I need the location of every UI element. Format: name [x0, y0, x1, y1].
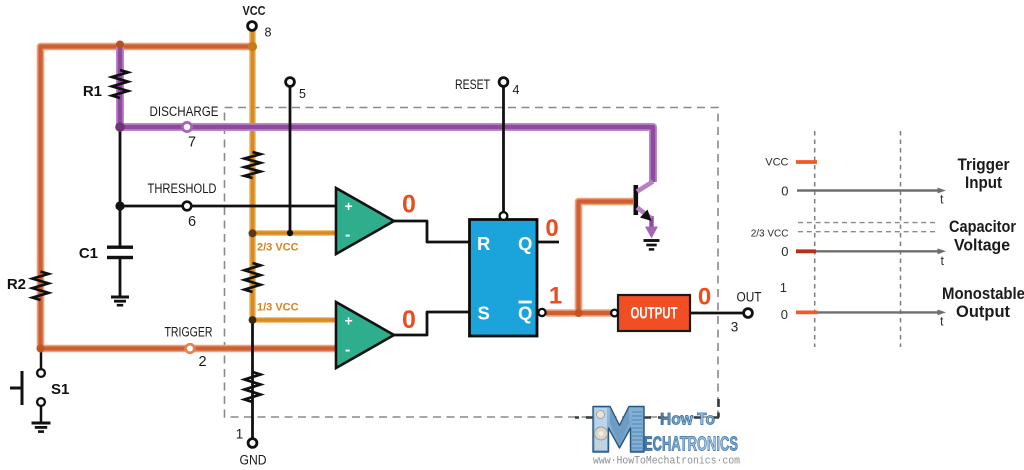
svg-text:8: 8: [265, 26, 272, 40]
svg-text:OUTPUT: OUTPUT: [631, 305, 678, 323]
svg-text:RESET: RESET: [455, 77, 490, 92]
svg-text:+: +: [345, 313, 353, 329]
OUTPUT stage block: [618, 295, 690, 331]
pin 6 terminal on threshold wire: [183, 202, 192, 211]
svg-text:t: t: [940, 193, 944, 207]
svg-text:1: 1: [236, 427, 244, 442]
wire THRESHOLD net (black) node to pin 6 and comparator 1 plus input: [119, 127, 122, 246]
capacitor voltage axis: [797, 248, 946, 268]
capacitor voltage threshold dashed lines: [798, 223, 937, 232]
capacitor voltage level segment (dark red): [796, 249, 816, 253]
logo letter M: [593, 407, 644, 453]
svg-text:www·HowToMechatronics·com: www·HowToMechatronics·com: [593, 456, 740, 468]
svg-text:0: 0: [402, 306, 416, 334]
pin 2 terminal on trigger wire: [186, 344, 195, 353]
svg-text:THRESHOLD: THRESHOLD: [148, 181, 217, 196]
switch S1: [10, 369, 45, 406]
svg-text:VCC: VCC: [243, 3, 267, 18]
logo schematic dashes: [575, 416, 719, 419]
wire comparator 1 output to R input: [394, 221, 470, 242]
junction trigger rail at S1: [37, 345, 45, 353]
svg-text:R2: R2: [7, 276, 26, 293]
svg-text:Trigger: Trigger: [958, 155, 1010, 174]
ground under transistor (discharge): [644, 241, 660, 250]
junction R1 tap on VCC rail: [116, 41, 124, 49]
monostable output axis: [797, 310, 946, 329]
wire OUTPUT block to pin 3 OUT: [690, 312, 744, 315]
op-amp comparator 2 (trigger): [336, 302, 394, 368]
pin 7 terminal on discharge wire: [182, 122, 191, 131]
wire pin 4 RESET (black) down to flip-flop: [502, 87, 505, 213]
svg-text:R: R: [477, 233, 490, 254]
svg-text:GND: GND: [240, 453, 267, 468]
wire S1 to trigger rail and to ground: [40, 352, 43, 422]
logo schematic tick: [717, 399, 720, 418]
svg-text:1: 1: [549, 283, 562, 310]
junction VCC rail meets amber vertical: [248, 42, 257, 51]
junction DISCHARGE node at R1 bottom: [115, 122, 125, 132]
svg-text:0: 0: [402, 191, 416, 219]
svg-text:2: 2: [198, 354, 206, 370]
svg-text:Voltage: Voltage: [954, 236, 1010, 255]
pin 3 OUT terminal: [744, 309, 753, 318]
time cursor dashed vertical line 1: [814, 131, 816, 347]
pin R reset junction circle on flip-flop: [500, 212, 508, 220]
wire C1 bottom to ground: [119, 259, 122, 296]
svg-text:0: 0: [781, 307, 788, 322]
svg-text:Output: Output: [956, 302, 1010, 321]
trigger input axis: [797, 188, 946, 207]
svg-text:VCC: VCC: [765, 157, 788, 169]
op-amp comparator 1 (threshold): [336, 188, 394, 254]
svg-text:7: 7: [188, 135, 196, 151]
svg-text:t: t: [940, 315, 944, 329]
svg-text:Q: Q: [518, 233, 532, 254]
pin 5 terminal: [286, 78, 295, 87]
ground under C1: [111, 297, 129, 305]
junction Qbar branch to transistor base: [575, 309, 583, 317]
junction 1/3 VCC node: [249, 316, 257, 324]
svg-text:2/3 VCC: 2/3 VCC: [751, 229, 789, 240]
resistor divider middle (inside 555): [245, 263, 261, 292]
svg-text:5: 5: [299, 87, 306, 101]
svg-text:4: 4: [513, 83, 520, 97]
wire Qbar net (orange) to output stage and transistor base: [546, 202, 633, 314]
pin Qbar inversion bubble: [538, 309, 545, 316]
dashed boundary of 555 IC: [225, 108, 719, 418]
junction pin 5 end dot: [287, 230, 293, 236]
wire Q output stub: [537, 241, 559, 244]
junction 2/3 VCC node: [249, 229, 257, 237]
svg-text:0: 0: [545, 215, 558, 242]
svg-text:Input: Input: [965, 173, 1002, 192]
pin 4 RESET terminal: [499, 78, 508, 87]
wire transistor emitter to ground (purple): [649, 216, 653, 228]
wire 1/3 VCC tap (amber) to comparator 2 non-inverting input: [253, 317, 337, 323]
svg-text:TRIGGER: TRIGGER: [165, 325, 213, 340]
svg-text:S: S: [478, 303, 490, 324]
trigger input VCC level segment: [796, 160, 817, 164]
svg-text:1: 1: [780, 280, 787, 295]
transistor Q1 (discharge): [634, 182, 659, 239]
svg-text:S1: S1: [51, 381, 69, 398]
wire divider bottom (black) 1/3 node to pin 1 GND: [251, 320, 254, 439]
time cursor dashed vertical line 2: [900, 131, 902, 347]
svg-text:R1: R1: [83, 83, 102, 100]
svg-text:+: +: [345, 198, 353, 214]
svg-text:Monostable: Monostable: [942, 284, 1024, 303]
svg-text:Q: Q: [518, 303, 532, 324]
svg-text:0: 0: [698, 284, 711, 311]
resistor R2: [33, 272, 49, 301]
svg-text:DISCHARGE: DISCHARGE: [150, 104, 219, 119]
svg-text:3: 3: [731, 320, 739, 335]
svg-text:-: -: [345, 227, 350, 244]
flip-flop U1 (SR latch): [470, 220, 538, 337]
svg-text:2/3 VCC: 2/3 VCC: [257, 242, 299, 254]
wire VCC vertical (amber) pin 8 down through divider resistors: [249, 30, 255, 320]
pin 8 VCC terminal: [248, 22, 257, 31]
svg-text:OUT: OUT: [737, 290, 762, 305]
pin 1 GND terminal: [248, 439, 257, 448]
monostable output level segment: [796, 310, 818, 314]
wire pin 5 control voltage (black): [289, 87, 292, 234]
svg-text:1/3 VCC: 1/3 VCC: [257, 302, 299, 314]
resistor divider top (inside 555): [245, 152, 261, 178]
wire DISCHARGE net (purple) from R1 through pin 7 to discharge transistor collector: [120, 47, 653, 183]
node connector circle at OUTPUT block input: [611, 310, 618, 317]
resistor R1: [112, 70, 128, 98]
wire VCC net (red-orange): top rail and left vertical to trigger rail: [41, 47, 337, 349]
svg-text:-: -: [345, 342, 350, 359]
svg-text:ECHATRONICS: ECHATRONICS: [644, 434, 738, 456]
svg-text:How To: How To: [660, 411, 715, 429]
svg-text:t: t: [941, 254, 945, 268]
svg-text:0: 0: [781, 244, 788, 259]
wire 2/3 VCC tap (amber) to comparator 1 inverting input: [253, 230, 337, 236]
capacitor C1: [107, 246, 133, 260]
ground under S1: [32, 423, 51, 432]
svg-text:6: 6: [188, 214, 196, 230]
resistor divider bottom (inside 555): [245, 372, 261, 402]
junction THRESHOLD node: [115, 201, 124, 210]
svg-text:C1: C1: [79, 245, 98, 262]
wire comparator 2 output to S input: [394, 312, 470, 335]
svg-text:0: 0: [781, 184, 788, 199]
svg-text:Capacitor: Capacitor: [949, 217, 1016, 236]
